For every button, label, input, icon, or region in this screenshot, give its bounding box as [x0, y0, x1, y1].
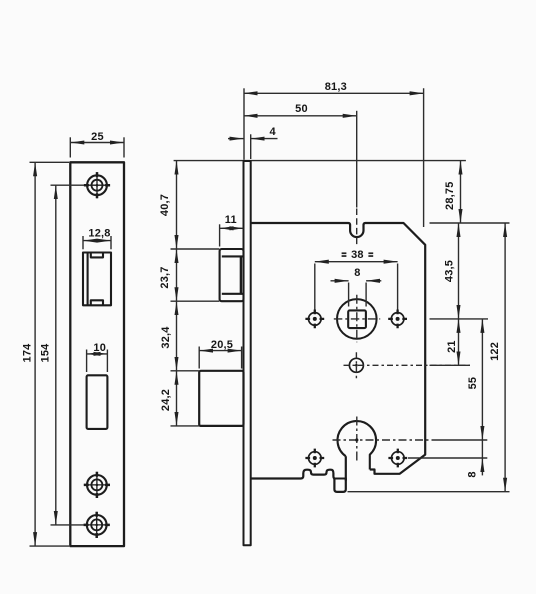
- svg-text:4: 4: [270, 126, 277, 138]
- dim 12,8: [83, 240, 111, 242]
- screw hole left (case): [305, 310, 324, 329]
- dim 32,4: [176, 301, 178, 371]
- screw hole right (case): [388, 310, 407, 329]
- svg-text:21: 21: [446, 340, 458, 353]
- dim 43,5: [458, 223, 460, 319]
- latch cutout (12,8): [83, 253, 111, 306]
- top screw hole: [84, 172, 110, 198]
- svg-text:10: 10: [93, 342, 106, 354]
- deadbolt cutout (10): [87, 375, 108, 429]
- svg-text:38: 38: [351, 249, 364, 261]
- bottom screw hole left (case): [305, 449, 324, 468]
- latch bolt (side view): [220, 249, 244, 301]
- svg-text:55: 55: [467, 377, 479, 390]
- bottom screw hole 1: [84, 472, 110, 498]
- svg-text:174: 174: [21, 343, 33, 363]
- dim 21: [458, 319, 460, 365]
- tab bottom extension: [348, 491, 510, 493]
- faceplate outline: [70, 162, 124, 546]
- svg-text:12,8: 12,8: [88, 228, 110, 240]
- dim 10: [87, 353, 108, 355]
- bottom screws extension: [408, 457, 487, 459]
- case top extension: [430, 222, 510, 224]
- svg-text:81,3: 81,3: [325, 81, 347, 93]
- svg-text:122: 122: [489, 342, 501, 361]
- dim 38: [315, 261, 398, 263]
- dim 24,2: [176, 371, 178, 426]
- svg-text:50: 50: [295, 103, 308, 115]
- svg-text:20,5: 20,5: [211, 339, 233, 351]
- dim 25: [70, 142, 124, 144]
- dim 40,7: [176, 161, 178, 249]
- svg-text:40,7: 40,7: [159, 194, 171, 216]
- dim 8 (square): [331, 280, 349, 282]
- spindle follower: [337, 299, 377, 339]
- bottom tab below case: [334, 479, 345, 492]
- spindle square (8mm): [348, 310, 366, 328]
- dim 174: [34, 162, 36, 546]
- dim 28,75: [460, 161, 462, 223]
- top reference line: [174, 160, 466, 162]
- cylinder crosshair (centreline): [333, 439, 434, 441]
- svg-text:8: 8: [466, 471, 478, 477]
- svg-text:23,7: 23,7: [159, 266, 171, 288]
- dim 23,7: [176, 249, 178, 301]
- faceplate bar (side): [244, 161, 251, 545]
- bottom screw hole right (case): [388, 449, 407, 468]
- bottom screw hole 2: [84, 512, 110, 538]
- svg-text:32,4: 32,4: [160, 326, 172, 349]
- dim 20,5: [199, 350, 241, 352]
- lower centre hole (centreline style): [344, 352, 471, 378]
- dim 154: [55, 185, 57, 525]
- svg-text:11: 11: [225, 214, 237, 226]
- lock case outline: [251, 223, 426, 474]
- spindle centre extension: [430, 318, 489, 320]
- svg-text:43,5: 43,5: [444, 260, 456, 282]
- dim 122: [504, 223, 506, 492]
- dim 81,3: [244, 92, 424, 94]
- dim 55: [481, 319, 483, 440]
- lower hole extension: [430, 364, 471, 366]
- deadbolt (side view): [199, 371, 243, 426]
- svg-text:25: 25: [91, 131, 104, 143]
- dim 11: [220, 227, 244, 229]
- dim 50: [244, 115, 357, 117]
- svg-text:8: 8: [354, 267, 360, 279]
- dim 8 (right): [481, 440, 483, 458]
- euro cylinder profile: [337, 421, 376, 469]
- svg-text:154: 154: [39, 343, 51, 363]
- svg-text:28,75: 28,75: [444, 181, 456, 210]
- spindle crosshair (centreline): [334, 318, 380, 320]
- svg-text:24,2: 24,2: [160, 389, 172, 411]
- tab top line (case bottom across tab): [333, 478, 346, 480]
- dim 4: [228, 138, 244, 140]
- case bottom edge with two bumps: [251, 470, 335, 479]
